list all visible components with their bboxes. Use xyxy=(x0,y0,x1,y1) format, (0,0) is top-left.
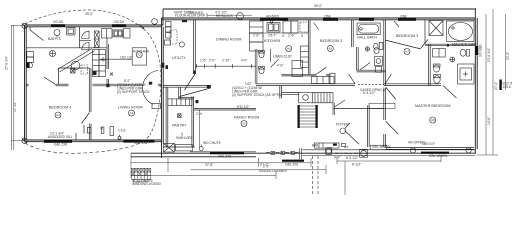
svg-text:GBL WNDW: GBL WNDW xyxy=(372,145,391,149)
nook fixtures xyxy=(27,49,113,77)
svg-text:GBL 3X6: GBL 3X6 xyxy=(218,155,231,159)
hall bath fixtures xyxy=(357,23,383,72)
svg-text:105.8: 105.8 xyxy=(503,85,511,89)
dashed driveway curve bottom-left xyxy=(25,135,150,153)
windows (black fills) xyxy=(44,18,478,161)
svg-text:BEDROOM 3: BEDROOM 3 xyxy=(396,34,418,38)
svg-text:HALL BATH: HALL BATH xyxy=(357,36,377,40)
svg-text:17'-10": 17'-10" xyxy=(13,101,17,112)
room tag circles xyxy=(55,45,436,126)
corridor south wall xyxy=(256,83,355,85)
front door stoop xyxy=(314,143,345,148)
svg-text:23'-0": 23'-0" xyxy=(506,51,510,60)
svg-text:2'-10": 2'-10" xyxy=(222,59,231,63)
svg-text:KITCHEN: KITCHEN xyxy=(264,39,281,43)
svg-text:A1: A1 xyxy=(242,122,246,126)
pantry walls xyxy=(165,87,167,147)
stairs xyxy=(299,92,345,127)
svg-text:(2) SUPPORT STACK (AS OPTN): (2) SUPPORT STACK (AS OPTN) xyxy=(232,93,282,97)
svg-text:KITCHEN: KITCHEN xyxy=(133,50,150,54)
svg-text:BEDROOM 4: BEDROOM 4 xyxy=(49,106,71,110)
svg-text:2/0-3/0: 2/0-3/0 xyxy=(114,20,124,24)
svg-text:A7: A7 xyxy=(405,50,409,54)
svg-text:A2: A2 xyxy=(137,53,141,57)
corner markers xyxy=(22,23,121,143)
dining room xyxy=(195,13,256,69)
svg-text:GBL 3X6: GBL 3X6 xyxy=(285,163,298,167)
svg-text:WD CHUTE: WD CHUTE xyxy=(203,141,222,145)
kitchen/bed2 south wall xyxy=(282,73,317,75)
svg-text:A3: A3 xyxy=(130,111,134,115)
dashed arc top-left xyxy=(25,10,161,135)
svg-text:1'-6": 1'-6" xyxy=(200,59,207,63)
hallbath west wall lower xyxy=(356,47,358,70)
svg-text:(2) SUPPORT STACK: (2) SUPPORT STACK xyxy=(117,90,150,94)
svg-text:2'-6": 2'-6" xyxy=(288,34,295,38)
svg-text:GBL 2X6: GBL 2X6 xyxy=(54,142,67,146)
svg-text:2'-N: 2'-N xyxy=(196,112,203,116)
svg-text:2/68: 2/68 xyxy=(400,14,407,18)
right dimension lines xyxy=(477,9,505,155)
svg-text:2'-6": 2'-6" xyxy=(253,34,260,38)
svg-text:6'-0": 6'-0" xyxy=(334,155,341,159)
dining west wall xyxy=(193,20,195,74)
bath3 fixtures xyxy=(54,28,130,50)
svg-text:27'-4": 27'-4" xyxy=(494,81,498,90)
svg-text:14'-8": 14'-8" xyxy=(487,116,491,125)
svg-text:39'-0": 39'-0" xyxy=(314,4,323,8)
legend grid xyxy=(131,168,150,182)
foyer tag xyxy=(340,123,350,134)
closet wall xyxy=(178,87,180,99)
svg-text:BEDROOM 2: BEDROOM 2 xyxy=(320,39,342,43)
svg-text:A6: A6 xyxy=(287,47,291,51)
svg-text:FLOOR: FLOOR xyxy=(175,14,187,18)
svg-text:PANTRY: PANTRY xyxy=(172,124,187,128)
wall right of shop xyxy=(106,38,108,69)
svg-text:2'6-7": 2'6-7" xyxy=(268,34,277,38)
family room north wall xyxy=(194,108,256,110)
svg-text:2'-0": 2'-0" xyxy=(209,59,216,63)
svg-text:10'2 1/2": 10'2 1/2" xyxy=(120,55,134,59)
svg-text:RAISED DORMER: RAISED DORMER xyxy=(259,169,287,173)
bed2/hallbath wall upper xyxy=(351,20,353,47)
bath bottom wall xyxy=(357,69,386,71)
low cabinet row under kitchen xyxy=(312,77,335,84)
svg-text:GBL 3X6: GBL 3X6 xyxy=(134,141,147,145)
pantry fixtures xyxy=(164,99,204,152)
svg-text:BATH 3: BATH 3 xyxy=(48,37,61,41)
nook lower wall y=85 xyxy=(26,83,28,85)
kitchen island tag box xyxy=(100,48,147,65)
master bath fixtures xyxy=(429,21,474,85)
svg-text:4'-6": 4'-6" xyxy=(277,64,284,68)
svg-text:GBL WNDW: GBL WNDW xyxy=(429,154,448,158)
svg-text:SHELVES: SHELVES xyxy=(176,136,193,140)
bath3 / shop walls xyxy=(26,47,107,49)
svg-text:8'-1/2": 8'-1/2" xyxy=(352,162,362,166)
stairs hall walls xyxy=(279,86,281,99)
svg-text:B4B: B4B xyxy=(312,144,319,148)
svg-text:27'-8 3/4": 27'-8 3/4" xyxy=(5,55,9,70)
svg-text:ANODIZED SILL: ANODIZED SILL xyxy=(48,135,73,139)
svg-text:WINDOW LEGEND: WINDOW LEGEND xyxy=(132,182,162,186)
svg-text:A8: A8 xyxy=(431,118,435,122)
family west thin line xyxy=(199,110,201,148)
svg-text:4'-0": 4'-0" xyxy=(241,59,248,63)
utility fixtures xyxy=(152,19,185,47)
kitchen east counters xyxy=(301,46,309,67)
svg-text:FOYER: FOYER xyxy=(336,122,349,126)
svg-text:37'-8": 37'-8" xyxy=(205,163,214,167)
svg-text:UTILITY: UTILITY xyxy=(172,56,186,60)
svg-text:8'-5 1/2": 8'-5 1/2" xyxy=(346,156,359,160)
svg-text:39'-0": 39'-0" xyxy=(85,12,94,16)
svg-text:LIVING ROOM: LIVING ROOM xyxy=(118,106,143,110)
svg-text:3/0 SGD: 3/0 SGD xyxy=(479,44,483,57)
svg-text:DINING ROOM: DINING ROOM xyxy=(216,38,241,42)
svg-text:23'-8 3/4": 23'-8 3/4" xyxy=(487,47,491,62)
closet bed4 xyxy=(59,67,90,69)
bedroom4 / living wall x=90 xyxy=(88,68,90,112)
svg-text:ALUM DRIP: ALUM DRIP xyxy=(187,14,206,18)
5' pantry tall box xyxy=(292,61,303,77)
svg-text:RE BLOCK: RE BLOCK xyxy=(216,14,233,18)
lower compartment xyxy=(365,47,369,51)
svg-text:FAMILY ROOM: FAMILY ROOM xyxy=(234,115,259,119)
svg-text:2/68: 2/68 xyxy=(324,14,331,18)
svg-text:A4: A4 xyxy=(344,145,348,149)
svg-text:LINEN CLST: LINEN CLST xyxy=(273,55,292,59)
svg-text:MASTER BATH: MASTER BATH xyxy=(452,43,478,47)
bed2 west wall xyxy=(307,20,309,75)
bedroom2 pocket door xyxy=(314,23,320,31)
svg-text:5'-4 1/2": 5'-4 1/2" xyxy=(363,91,376,95)
svg-text:MASTER BEDROOM: MASTER BEDROOM xyxy=(415,104,450,108)
svg-text:A5: A5 xyxy=(328,47,332,51)
bottom door area living room xyxy=(75,133,77,140)
pantry bottom xyxy=(163,146,195,148)
sidewalk xyxy=(313,156,319,194)
svg-text:4/0-5/0/5: 4/0-5/0/5 xyxy=(266,14,279,18)
svg-text:1-1/2: 1-1/2 xyxy=(118,129,126,133)
svg-text:A4: A4 xyxy=(56,113,60,117)
svg-text:5: 5 xyxy=(181,133,183,137)
master door swing xyxy=(443,86,457,99)
utility/hall bottom wall xyxy=(163,85,207,87)
left dimension lines xyxy=(11,25,24,150)
hallbath/bed3 wall xyxy=(383,20,385,86)
svg-text:8'11 1/2": 8'11 1/2" xyxy=(237,105,250,109)
door arc living->garage xyxy=(143,71,158,105)
svg-text:2/0-3/0: 2/0-3/0 xyxy=(53,20,63,24)
svg-text:10/0 S.P.: 10/0 S.P. xyxy=(422,142,435,146)
